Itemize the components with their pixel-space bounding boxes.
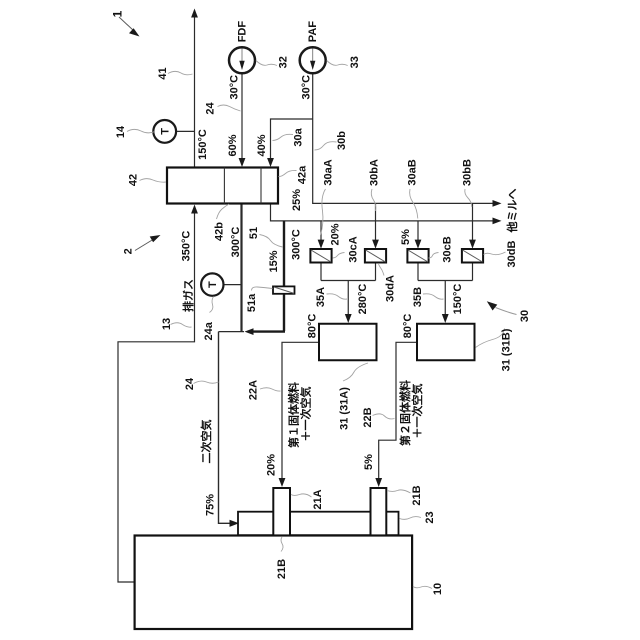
svg-text:41: 41 [157,67,169,79]
wire secondary air line 24a 300C [240,204,242,332]
svg-text:350°C: 350°C [181,231,193,262]
wire 40% branch into air heater 30a [271,119,313,161]
svg-text:60%: 60% [227,134,239,156]
svg-text:24a: 24a [203,321,215,340]
svg-text:30a: 30a [293,127,305,146]
wire drop pipe 30aA [320,221,322,242]
arrowhead hot header to other mills [493,218,502,225]
arrowhead into damper 30dB [469,240,476,249]
svg-text:30aB: 30aB [407,159,419,185]
svg-text:75%: 75% [205,494,217,516]
svg-text:1: 1 [111,10,125,17]
wire hot primary air header 30a [271,204,493,221]
wire mixing header mill A 35A [321,281,376,317]
wire mill A outlet fuel line 22A [282,342,319,479]
leader 22B [373,414,395,419]
svg-text:30dB: 30dB [506,240,518,267]
damper 30cA [310,249,331,263]
svg-text:30dA: 30dA [385,275,397,302]
svg-text:35B: 35B [412,287,424,307]
svg-text:PAF: PAF [307,21,319,42]
ref arrow 2 [135,235,161,251]
svg-text:40%: 40% [256,134,268,156]
svg-text:排ガス: 排ガス [181,279,195,312]
svg-text:22A: 22A [248,380,260,400]
burner 21B [371,488,387,536]
air heater divider 42a [260,168,262,204]
leader 30bB [465,189,472,207]
svg-text:30bA: 30bA [369,159,381,186]
fan PAF 33 [300,47,326,73]
wire thermometer T2 connector [223,284,241,286]
leader 24 top [218,105,241,111]
wire mill B outlet fuel line 22B [379,342,417,479]
svg-text:23: 23 [424,511,436,523]
svg-text:30: 30 [519,310,531,322]
svg-text:32: 32 [278,56,290,68]
leader 10 [413,586,432,588]
svg-text:21B: 21B [411,485,423,505]
wire FDF supply line 24 [241,74,243,162]
svg-text:150°C: 150°C [197,129,209,160]
arrowhead into damper 30cB [415,240,422,249]
svg-text:21A: 21A [312,489,324,509]
leader 33 [327,61,348,66]
arrowhead 40% into air heater [267,158,274,167]
arrowhead into damper 30dA [372,240,379,249]
leader 35A [327,294,348,299]
svg-text:33: 33 [349,56,361,68]
leader 42b [217,204,230,219]
wire mixing header mill B 35B [418,281,473,317]
damper 30dA [365,249,386,263]
leader 30bA [371,189,375,211]
svg-text:5%: 5% [363,454,375,470]
svg-text:13: 13 [161,318,173,330]
svg-text:80°C: 80°C [307,314,319,339]
svg-text:24: 24 [184,377,196,390]
svg-text:14: 14 [115,125,127,138]
leader 30dB [484,252,506,255]
svg-text:30cB: 30cB [442,236,454,262]
leader lines [127,61,506,589]
leader 21B low [281,537,283,552]
arrowhead fuel into burner 21A [279,478,286,487]
svg-text:30bB: 30bB [462,159,474,186]
svg-text:31 (31B): 31 (31B) [501,328,513,371]
svg-text:30cA: 30cA [348,236,360,262]
wire damper 30cB outlet [417,263,419,281]
thermometer T1 14 [153,120,176,143]
svg-text:第１固体燃料: 第１固体燃料 [287,382,301,448]
svg-text:30aA: 30aA [323,159,335,185]
mill 31A box [319,324,377,361]
air heater divider 42b [223,168,225,204]
svg-text:15%: 15% [268,250,280,272]
wire junction 24a to 24 [219,331,245,333]
svg-text:10: 10 [432,583,444,595]
arrowhead secondary air into windbox [230,520,240,527]
windbox 23 [238,512,399,536]
svg-text:24: 24 [205,102,217,115]
svg-text:＋一次空気: ＋一次空気 [299,387,313,442]
wire secondary air line 24 to windbox [219,332,231,524]
wire drop pipe 30aB [417,221,419,242]
svg-text:21B: 21B [276,559,288,579]
arrowhead cold header to other mills [493,200,502,207]
svg-text:300°C: 300°C [230,227,242,258]
svg-text:42b: 42b [214,222,226,241]
arrowhead flue stack up [191,9,198,18]
wire flue stack line 41 [194,11,196,168]
air heater box 42 [167,168,278,204]
leader 30aA [321,189,326,235]
svg-text:35A: 35A [315,287,327,307]
svg-text:42a: 42a [297,165,309,184]
leader 30b [315,142,337,150]
svg-text:T: T [160,128,172,135]
leader 24 low [194,381,219,383]
damper 51a [273,286,295,293]
svg-text:150°C: 150°C [452,284,464,315]
leader 41 [168,71,193,74]
text labels (rotated) [111,10,532,595]
wire PAF line and cold air header 30b [313,74,493,204]
svg-text:80°C: 80°C [402,314,414,339]
svg-text:二次空気: 二次空気 [199,420,213,464]
leader 13 [171,323,192,327]
arrowhead mixed air into mill B [442,314,449,323]
wire hot bypass 51 with damper 51a 15% [252,221,285,332]
ref arrow 30 [487,301,517,314]
wire flue gas loop from furnace 13 [118,209,195,582]
svg-text:30b: 30b [336,131,348,150]
leader 42 [140,179,167,183]
wire drop pipe 30bA [375,203,377,242]
svg-text:30°C: 30°C [300,75,312,100]
leader 30aB [410,189,418,219]
svg-text:2: 2 [123,248,135,254]
arrowhead into damper 30cA [318,240,325,249]
leader 51a [252,287,273,291]
leader 51 [260,235,283,248]
svg-text:300°C: 300°C [291,229,303,260]
svg-text:51a: 51a [246,293,258,312]
wire damper 30cA outlet [320,263,322,281]
arrowhead FDF 60% into air heater [239,158,246,167]
svg-text:42: 42 [128,174,140,186]
leader 32 [256,61,277,66]
arrowhead fuel into burner 21B [375,478,382,487]
leader 24a [210,297,214,313]
svg-text:280°C: 280°C [357,284,369,315]
leader 22A [260,388,281,391]
svg-text:他ミルへ: 他ミルへ [505,189,519,234]
svg-text:31 (31A): 31 (31A) [339,387,351,430]
leader 14 [127,129,155,133]
leader 35B [423,294,444,299]
wire drop pipe 30bB [472,203,474,242]
svg-text:30°C: 30°C [228,75,240,100]
svg-text:20%: 20% [330,223,342,245]
svg-text:22B: 22B [362,407,374,427]
svg-text:第２固体燃料: 第２固体燃料 [398,380,412,446]
leader 30a [273,134,294,140]
arrowhead flue gas into air heater [191,205,198,214]
leader 30cA [333,253,345,259]
furnace box 10 [135,536,413,630]
thermometer T2 24a [201,273,223,295]
fan FDF 32 [229,47,255,73]
leader 31A [343,363,368,381]
wire damper 30dA outlet [375,263,377,281]
svg-text:5%: 5% [400,229,412,245]
leader 30cB [429,253,439,259]
leader 21B top [387,490,411,493]
svg-text:FDF: FDF [237,21,249,43]
svg-text:25%: 25% [291,189,303,211]
svg-text:51: 51 [248,227,260,239]
burner 21A [273,488,290,536]
svg-text:T: T [207,281,219,288]
leader 23 [400,517,422,520]
leader 30dA [379,264,385,276]
ref arrow 1 [119,17,140,37]
arrowhead mixed air into mill A [345,314,352,323]
svg-text:20%: 20% [266,454,278,476]
damper 30dB [462,249,483,263]
mill 31B box [417,324,475,361]
wire damper 30dB outlet [472,263,474,281]
leader 31B [476,329,505,348]
leader 42a [279,170,297,176]
arrowhead 51a joins 24a [245,328,254,335]
damper 30cB [407,249,428,263]
svg-text:＋一次空気: ＋一次空気 [410,384,424,439]
wire thermometer T1 connector [176,130,194,132]
leader 21A [291,494,312,497]
